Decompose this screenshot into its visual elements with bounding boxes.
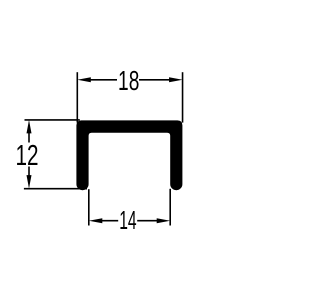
svg-text:12: 12: [16, 140, 39, 172]
svg-text:14: 14: [119, 205, 136, 235]
svg-text:18: 18: [118, 65, 139, 96]
